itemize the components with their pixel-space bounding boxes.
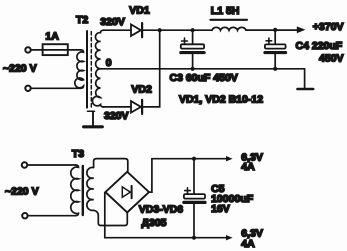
fuse F 1A bbox=[43, 44, 68, 55]
ground at transformer T2 core bbox=[88, 110, 95, 112]
svg-text:0: 0 bbox=[106, 57, 112, 69]
bottom rail wire (center tap return) bbox=[101, 68, 305, 70]
node junction C4 top bbox=[273, 28, 277, 32]
6.3V top rail wire bbox=[152, 158, 227, 160]
node junction C5 top bbox=[192, 157, 196, 161]
wire terminal to transformer T3 primary bottom bbox=[28, 215, 76, 217]
capacitor C5 positive plate bbox=[184, 194, 205, 199]
wire terminal to fuse and through fuse to transformer primary bbox=[31, 49, 81, 51]
top rail wire VD1 cathode to +370V arrow bbox=[143, 29, 297, 31]
wire C3 top stem bbox=[192, 30, 194, 44]
inductor L1 coil bbox=[212, 27, 246, 30]
transformer T3 secondary winding bbox=[87, 167, 94, 210]
svg-text:L1 5H: L1 5H bbox=[211, 5, 240, 17]
transformer T2 secondary winding upper half with center tap bbox=[95, 30, 104, 69]
wire T3 secondary top to bridge AC (top corner) bbox=[94, 159, 128, 172]
svg-text:VD3-VD6: VD3-VD6 bbox=[139, 203, 184, 215]
capacitor C4 negative plate bbox=[265, 51, 286, 54]
svg-text:320V: 320V bbox=[100, 16, 125, 28]
svg-text:4A: 4A bbox=[241, 161, 255, 173]
svg-text:~220 V: ~220 V bbox=[3, 63, 37, 75]
svg-text:~220 V: ~220 V bbox=[5, 185, 39, 197]
wire terminal to transformer T3 primary top bbox=[27, 164, 75, 166]
wire C4 top stem bbox=[274, 30, 276, 45]
svg-text:4A: 4A bbox=[241, 238, 255, 250]
svg-text:T2: T2 bbox=[76, 14, 88, 26]
node junction C3 bottom bbox=[191, 67, 195, 71]
svg-text:450V: 450V bbox=[319, 53, 344, 65]
output arrow 6,3V bottom bbox=[226, 235, 233, 240]
svg-text:C3 60uF 450V: C3 60uF 450V bbox=[170, 72, 238, 84]
wire bridge minus (left corner) down to bottom rail bbox=[104, 193, 106, 238]
node junction VD1/VD2 cathodes bbox=[158, 28, 162, 32]
svg-text:C4 220uF: C4 220uF bbox=[296, 40, 343, 52]
transformer T2 secondary winding lower half bbox=[92, 69, 104, 107]
wire C3 bottom stem bbox=[192, 54, 194, 69]
wire C5 top stem bbox=[193, 159, 195, 194]
terminal top-left input (bottom circuit) bbox=[22, 162, 27, 167]
node junction C4 bottom bbox=[273, 67, 277, 71]
terminal bottom-left input (top circuit) bbox=[25, 86, 30, 91]
capacitor C5 polarity plus bbox=[185, 188, 191, 194]
svg-text:320V: 320V bbox=[104, 110, 129, 122]
ground bar (top circuit right) bbox=[298, 88, 314, 91]
wire secondary top to diode VD1 anode bbox=[103, 29, 131, 31]
output arrow 6,3V top bbox=[226, 156, 233, 161]
6.3V bottom rail wire bbox=[105, 237, 227, 239]
capacitor C3 negative plate bbox=[181, 51, 204, 54]
wire C5 bottom stem bbox=[193, 204, 195, 238]
transformer T3 primary winding bbox=[71, 165, 79, 216]
transformer T2 screen dashed line bbox=[90, 32, 92, 108]
wire T3 secondary bottom to bridge AC (bottom corner) bbox=[94, 210, 128, 225]
transformer T2 primary winding bbox=[75, 50, 84, 88]
node junction C3 top bbox=[191, 28, 195, 32]
svg-text:1A: 1A bbox=[45, 31, 59, 43]
transformer T2 core solid line bbox=[86, 31, 88, 108]
transformer T3 core line bbox=[82, 166, 84, 215]
svg-text:+370V: +370V bbox=[313, 21, 344, 33]
bridge rectifier VD3-VD6 diamond bbox=[105, 172, 149, 213]
terminal top-left input (top circuit) bbox=[25, 47, 30, 52]
inductor L1 core bar bbox=[210, 19, 247, 21]
svg-text:VD1: VD1 bbox=[129, 5, 150, 17]
diode VD2 bbox=[131, 101, 141, 113]
wire C4 bottom stem bbox=[274, 54, 276, 69]
svg-text:Д305: Д305 bbox=[142, 217, 167, 229]
ground at C4 / output (stem) bbox=[304, 69, 306, 88]
bridge inner diode symbol bbox=[122, 187, 130, 197]
capacitor C3 positive plate bbox=[181, 44, 204, 48]
capacitor C4 polarity plus bbox=[266, 38, 272, 44]
node junction C5 bottom bbox=[192, 236, 196, 240]
wire bottom terminal to transformer primary bbox=[31, 87, 81, 89]
capacitor C5 negative plate bbox=[184, 201, 205, 204]
terminal bottom-left input (bottom circuit) bbox=[22, 213, 27, 218]
svg-text:VD1, VD2 B10-12: VD1, VD2 B10-12 bbox=[179, 94, 263, 106]
svg-text:T3: T3 bbox=[72, 148, 84, 160]
diode VD1 bbox=[131, 24, 141, 36]
capacitor C3 polarity plus bbox=[182, 38, 188, 44]
svg-text:VD2: VD2 bbox=[131, 84, 152, 96]
wire bridge + output (right corner) up to 6.3V rail bbox=[149, 159, 152, 192]
wire VD2 cathode to top rail (vertical link) bbox=[143, 30, 160, 107]
svg-text:16V: 16V bbox=[211, 203, 230, 215]
wire secondary bottom to diode VD2 anode bbox=[103, 106, 131, 108]
capacitor C4 positive plate bbox=[265, 44, 286, 48]
output arrow +370V bbox=[297, 26, 306, 33]
